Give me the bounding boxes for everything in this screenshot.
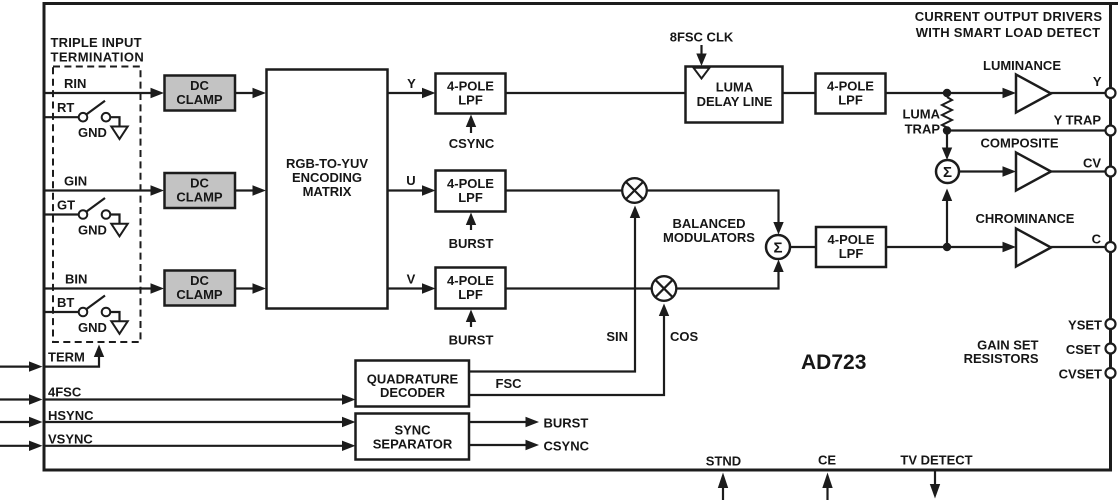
svg-text:TERMINATION: TERMINATION [51, 50, 145, 65]
TERM input stub [0, 366, 31, 368]
pin CV [1106, 167, 1116, 177]
svg-text:CSET: CSET [1066, 342, 1101, 357]
svg-text:Y: Y [1093, 74, 1102, 89]
svg-text:TRIPLE INPUT: TRIPLE INPUT [51, 35, 142, 50]
pin Y TRAP [1106, 126, 1116, 136]
junction dot Y trap [943, 126, 951, 134]
wire LPF V to modulator2 [506, 287, 653, 289]
termination dashed box [53, 67, 141, 343]
wire U out of matrix [388, 189, 425, 191]
svg-text:BT: BT [57, 295, 74, 310]
wire Y trap to pin [947, 129, 1106, 131]
svg-text:GND: GND [78, 320, 107, 335]
svg-text:Σ: Σ [773, 240, 782, 257]
arrow down into sigma1 [946, 133, 948, 149]
svg-text:DC: DC [190, 273, 209, 288]
DC clamp 1 [165, 76, 236, 111]
CSYNC arrow into LPF Y [470, 125, 472, 133]
4-pole LPF V [436, 268, 506, 309]
svg-text:RESISTORS: RESISTORS [964, 351, 1039, 366]
svg-text:CE: CE [818, 453, 836, 468]
BURST arrow into LPF U [470, 223, 472, 230]
8FSC CLK arrow [700, 45, 702, 55]
arrow up into sigma1 from chroma [946, 200, 948, 243]
svg-text:LUMA: LUMA [902, 107, 940, 122]
summer sigma2 [766, 235, 790, 259]
svg-text:TV DETECT: TV DETECT [900, 453, 972, 468]
svg-text:GND: GND [78, 125, 107, 140]
svg-text:GND: GND [78, 223, 107, 238]
wire BT input [44, 311, 79, 313]
VSYNC wire to sync separator [44, 445, 344, 447]
4-pole LPF chroma [816, 227, 886, 267]
svg-text:LPF: LPF [458, 287, 483, 302]
svg-text:4-POLE: 4-POLE [447, 176, 494, 191]
balanced modulator 1 [622, 178, 647, 203]
luminance amp U1 [1016, 75, 1051, 113]
CSYNC output wire [469, 444, 527, 446]
summer sigma1 [936, 160, 959, 183]
svg-text:FSC: FSC [496, 376, 523, 391]
wire modulator2 to sigma2 [676, 271, 778, 289]
pin C [1106, 242, 1116, 252]
wire BIN input [44, 287, 153, 289]
VSYNC input stub [0, 445, 31, 447]
svg-text:COS: COS [670, 329, 699, 344]
svg-text:BURST: BURST [449, 333, 494, 348]
svg-text:CSYNC: CSYNC [449, 136, 495, 151]
svg-text:DC: DC [190, 78, 209, 93]
svg-text:Y TRAP: Y TRAP [1054, 113, 1102, 128]
svg-text:BURST: BURST [449, 236, 494, 251]
ground G [111, 224, 127, 237]
svg-text:LPF: LPF [458, 190, 483, 205]
BURST output wire [469, 421, 527, 423]
4-pole LPF Y [436, 74, 506, 114]
svg-text:SIN: SIN [606, 329, 628, 344]
wire GIN input [44, 189, 153, 191]
svg-text:YSET: YSET [1068, 318, 1102, 333]
switch BT [79, 308, 88, 317]
svg-text:CLAMP: CLAMP [176, 92, 223, 107]
svg-text:LPF: LPF [839, 246, 864, 261]
svg-text:4FSC: 4FSC [48, 385, 82, 400]
svg-text:TERM: TERM [48, 350, 85, 365]
svg-text:RGB-TO-YUV: RGB-TO-YUV [286, 156, 368, 171]
wire Y out of matrix [388, 92, 425, 94]
BURST arrow into LPF V [470, 320, 472, 327]
svg-text:Σ: Σ [943, 164, 952, 181]
svg-text:ENCODING: ENCODING [292, 170, 362, 185]
HSYNC input stub [0, 421, 31, 423]
HSYNC wire to sync separator [44, 421, 344, 423]
svg-text:DC: DC [190, 176, 209, 191]
pin CVSET [1106, 368, 1116, 378]
svg-text:DELAY LINE: DELAY LINE [697, 94, 773, 109]
wire LPF5 to chrominance amp [886, 246, 1005, 248]
wire GT input [44, 213, 79, 215]
4FSC wire to quadrature decoder [44, 398, 344, 400]
SIN wire to modulator1 [469, 217, 635, 372]
svg-text:GT: GT [57, 198, 75, 213]
svg-text:V: V [407, 272, 416, 287]
wire LPF4 to luminance amp [886, 92, 1005, 94]
top border extension to page edge [1110, 2, 1118, 5]
wire amp to Y pin [1051, 92, 1106, 94]
TV DETECT output arrow [934, 471, 936, 485]
svg-text:CHROMINANCE: CHROMINANCE [976, 211, 1075, 226]
svg-text:4-POLE: 4-POLE [447, 79, 494, 94]
wire clamp2 to matrix [235, 189, 255, 191]
svg-text:LPF: LPF [458, 93, 483, 108]
pin CSET [1106, 344, 1116, 354]
clock wedge [694, 68, 710, 79]
svg-text:CSYNC: CSYNC [544, 439, 590, 454]
pin YSET [1106, 319, 1116, 329]
svg-text:CLAMP: CLAMP [176, 190, 223, 205]
switch RT [79, 113, 88, 122]
DC clamp 3 [165, 271, 236, 306]
wire LPF Y to luma delay line [506, 92, 686, 94]
svg-text:LUMA: LUMA [716, 80, 754, 95]
sync separator box [356, 414, 470, 460]
4-pole LPF luma [816, 74, 886, 114]
svg-text:MATRIX: MATRIX [303, 184, 352, 199]
junction dot Y [943, 89, 951, 97]
CE input arrow [826, 487, 828, 500]
svg-text:RIN: RIN [64, 76, 86, 91]
svg-text:TRAP: TRAP [905, 122, 941, 137]
svg-text:4-POLE: 4-POLE [828, 232, 875, 247]
svg-text:GIN: GIN [64, 174, 87, 189]
wire amp to CV pin [1051, 170, 1106, 172]
svg-text:DECODER: DECODER [380, 385, 446, 400]
chrominance amp U3 [1016, 229, 1051, 267]
wire sigma1 to composite amp [959, 170, 1004, 172]
switch GT [79, 210, 88, 219]
luma trap resistor [942, 97, 952, 128]
COS wire to modulator2 [469, 315, 664, 395]
svg-text:CURRENT OUTPUT DRIVERS: CURRENT OUTPUT DRIVERS [915, 9, 1103, 24]
wire RIN input [44, 92, 153, 94]
wire V out of matrix [388, 287, 425, 289]
svg-text:WITH SMART LOAD DETECT: WITH SMART LOAD DETECT [916, 25, 1101, 40]
TERM wire to termination box [44, 356, 99, 367]
svg-text:COMPOSITE: COMPOSITE [980, 136, 1058, 151]
svg-text:VSYNC: VSYNC [48, 432, 93, 447]
pin Y [1106, 88, 1116, 98]
wire clamp1 to matrix [235, 92, 255, 94]
svg-text:LPF: LPF [838, 93, 863, 108]
svg-text:SEPARATOR: SEPARATOR [373, 437, 453, 452]
svg-text:BIN: BIN [65, 272, 87, 287]
svg-text:U: U [406, 173, 415, 188]
wire sigma2 to LPF5 [790, 246, 816, 248]
svg-text:CV: CV [1083, 156, 1101, 171]
STND input arrow [722, 487, 724, 500]
wire delay line to LPF4 [783, 92, 816, 94]
svg-text:Y: Y [407, 76, 416, 91]
junction dot C [943, 243, 951, 251]
quadrature decoder box [356, 361, 470, 407]
svg-text:BURST: BURST [544, 416, 589, 431]
svg-text:AD723: AD723 [801, 351, 866, 374]
luma delay line box [686, 67, 783, 123]
svg-text:C: C [1092, 232, 1102, 247]
svg-text:HSYNC: HSYNC [48, 408, 94, 423]
4-pole LPF U [436, 171, 506, 212]
4FSC input stub [0, 398, 31, 400]
composite amp U2 [1016, 153, 1051, 191]
wire amp to C pin [1051, 246, 1106, 248]
svg-text:8FSC CLK: 8FSC CLK [670, 30, 734, 45]
svg-text:4-POLE: 4-POLE [827, 79, 874, 94]
svg-text:RT: RT [57, 100, 74, 115]
svg-text:4-POLE: 4-POLE [447, 273, 494, 288]
svg-text:LUMINANCE: LUMINANCE [983, 58, 1061, 73]
svg-text:CVSET: CVSET [1059, 367, 1102, 382]
svg-text:BALANCED: BALANCED [673, 216, 746, 231]
wire RT input [44, 116, 79, 118]
RGB-to-YUV encoding matrix box [267, 70, 388, 309]
svg-text:MODULATORS: MODULATORS [663, 230, 755, 245]
svg-text:SYNC: SYNC [394, 423, 431, 438]
DC clamp 2 [165, 173, 236, 208]
wire clamp3 to matrix [235, 287, 255, 289]
ground R [111, 127, 127, 140]
ground B [111, 321, 127, 334]
balanced modulator 2 [652, 276, 677, 301]
wire modulator1 to sigma2 [647, 191, 779, 224]
svg-text:STND: STND [706, 454, 741, 469]
wire LPF U to modulator1 [506, 189, 623, 191]
svg-text:CLAMP: CLAMP [176, 287, 223, 302]
